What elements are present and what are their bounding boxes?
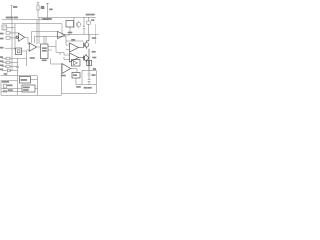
box B3 [72,73,80,79]
resistor R1 top-middle [37,3,40,17]
transistor Q3 [79,54,89,62]
wire drops to opamps [64,36,70,59]
op-amp U8 [62,64,71,74]
wire x17.5 vertical [17,58,19,95]
label B2a [23,87,29,88]
wire y80.5 [1,80,18,82]
wire U2 conn [22,50,30,66]
wire U4 bottom [51,59,62,65]
wire U8 out [71,69,78,73]
label under U4 [42,60,47,61]
resistor R6 [6,65,10,68]
label B1 [21,79,27,80]
label under U8 [61,75,66,76]
wire top bus y24 [2,23,62,25]
op-amp U6 [70,43,79,52]
label FB [0,47,3,48]
wire bus y31.5 [32,32,58,43]
wire top bus y20 [2,19,48,21]
label R1 [41,6,44,7]
supply rail V2 [46,3,49,20]
connector J1 left [2,25,7,30]
label gate [72,39,75,40]
label row2 [0,61,3,62]
label PVDD [6,17,13,18]
wire left verticals [12,20,15,71]
label VR1 [7,85,12,86]
trimmer VR1 [3,84,6,88]
label U4 [42,48,46,49]
block U9 [72,60,81,67]
box B1 [20,77,31,84]
capacitor C10 [88,71,91,85]
resistor R2 [6,32,19,35]
wire U3 out [37,46,41,48]
wire x61.5 vertical [61,64,63,93]
wire row y91.2 [1,90,22,92]
transistor Q2 [79,35,90,49]
wire right bus y34.5 [62,34,99,36]
wire gate bus y41 [66,40,84,42]
wire U5 out [65,27,70,35]
wire row y58.5 [2,58,27,60]
op-amp U1 [16,33,25,41]
resistor R7 [3,90,6,92]
box B2 [22,85,35,92]
wire right verticals [81,71,83,85]
label C9 [93,69,96,70]
label VCC [13,6,17,7]
wire box conns [31,80,38,89]
label C10 [92,75,95,76]
capacitor C5 [83,17,85,34]
wire top bus y17 [38,16,96,18]
label BST [86,14,90,15]
label AVDD [50,9,53,10]
box K1 [66,21,74,28]
label B2b [23,90,28,91]
transistor Q1 [76,21,80,28]
wire out bus y70.5 [82,70,96,72]
label under B3 [77,86,81,87]
label IN2 [0,38,3,39]
label caption [84,87,87,88]
wire bottom frame left [1,76,62,96]
modulator box U4 [41,44,49,59]
wire left border x1 [0,81,2,96]
resistor R4 [6,57,10,60]
wire row y66.5 [2,66,18,68]
wire right frame [62,71,97,94]
wire bus y36.3 [35,36,67,43]
label IN1 [0,33,3,34]
label row1 [0,57,3,58]
supply rail V1 top-left [10,6,12,20]
wire x95.7 [95,24,97,44]
label pwm h [68,32,72,33]
resistor R3 [6,37,19,40]
diode D2 row y70.5 [2,69,18,72]
wire row y74.5 marks [4,74,7,75]
wire row y62.5 [2,62,18,64]
mixer box U2 [15,48,21,55]
label R12 [92,51,95,52]
wire bus y84.8 [76,78,96,85]
op-amp U7 [70,53,79,62]
label right [92,38,96,39]
label row3 [0,65,3,66]
label bottom-left [2,81,9,82]
capacitor C3 [16,66,19,67]
label C5 [92,20,95,21]
wire row y88.7 [1,88,22,90]
label net [43,18,52,19]
wire y76 [1,75,38,77]
resistor R5 [6,61,10,64]
wire y27.8 [7,27,15,29]
diode D1 on x88.5 [87,17,90,34]
wire vertical x62 [61,24,63,35]
wire U1 out [25,37,30,44]
inductor L1 [87,49,92,71]
comparator U5 [58,32,66,39]
wire K2 top right [73,17,75,28]
wire vertical x42 link [41,17,43,20]
label B3 [73,75,77,76]
wire U4 outputs [48,40,64,55]
wire row y48 [5,47,15,49]
label row4 [0,69,3,70]
label under U3 [30,58,35,59]
op-amp U3 [29,43,36,51]
wire verticals above U4 [37,17,46,44]
label R7 [8,90,13,91]
